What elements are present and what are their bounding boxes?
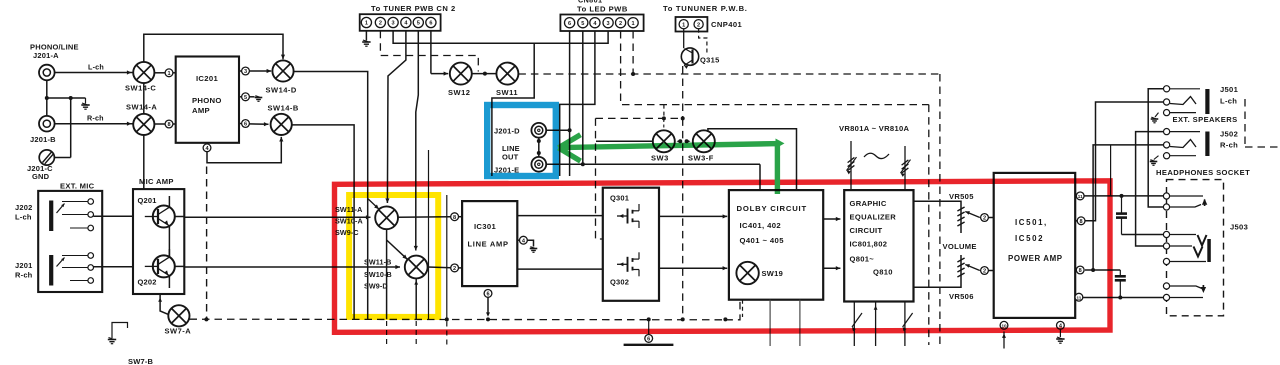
wire SW14-C to pin 1	[154, 72, 165, 74]
svg-text:SW14-C: SW14-C	[125, 84, 156, 93]
svg-text:J502: J502	[1220, 130, 1238, 139]
wire to headphone contact 3	[1122, 234, 1164, 236]
switch SW7-A	[168, 305, 189, 326]
svg-text:DOLBY CIRCUIT: DOLBY CIRCUIT	[737, 204, 807, 213]
contact 3 V spring	[1170, 234, 1196, 236]
pin 4 bottom	[1057, 321, 1065, 329]
switch SW14-D	[272, 60, 293, 81]
svg-text:SW10-B: SW10-B	[364, 270, 392, 279]
pin 5 of CN2	[413, 17, 423, 27]
transistor Q202	[153, 255, 175, 277]
wire J201-C to bus vertical	[70, 98, 72, 158]
wire J201-A down to J201-B	[46, 80, 48, 116]
wire EQ to VR506	[914, 255, 962, 287]
svg-text:SW14-B: SW14-B	[268, 104, 299, 113]
pin 8 of IC301	[451, 213, 459, 221]
dashed wire Q315 emitter down	[682, 66, 684, 118]
wire pin3 to SW14-D	[249, 70, 271, 72]
wire pin6 to SW14-B	[249, 123, 268, 125]
svg-text:AMP: AMP	[192, 106, 210, 115]
dashed wire LED pin2	[621, 31, 929, 105]
svg-text:Q810: Q810	[873, 268, 893, 277]
wire mic amp R output	[175, 265, 185, 267]
wire CN2 pin6 to SW12	[430, 31, 432, 74]
svg-text:6: 6	[568, 21, 571, 27]
wire diagonal into SW1 from phono line	[368, 199, 379, 210]
svg-text:J201-B: J201-B	[30, 135, 56, 144]
wire IC301 out upper	[517, 215, 603, 217]
wire supply into pin10	[1003, 332, 1005, 349]
svg-text:8: 8	[1079, 268, 1082, 274]
svg-text:Q315: Q315	[700, 56, 720, 65]
wiper to pin2 lower	[965, 265, 980, 271]
svg-text:8: 8	[453, 215, 456, 221]
svg-text:PHONO: PHONO	[192, 96, 222, 105]
wire pin8 lower to capacitor	[1085, 269, 1120, 271]
svg-text:MIC AMP: MIC AMP	[139, 177, 174, 186]
svg-text:HEADPHONES SOCKET: HEADPHONES SOCKET	[1156, 168, 1250, 177]
ground phono bus	[85, 98, 87, 104]
svg-text:5: 5	[244, 95, 247, 101]
pin 3 of LED connector	[603, 18, 613, 28]
wire SW1 branch down to bus	[386, 240, 388, 319]
connector LED PWB	[560, 15, 643, 32]
wire SW14-B output right then down	[292, 125, 354, 319]
svg-text:IC401, 402: IC401, 402	[740, 221, 782, 230]
svg-text:3: 3	[244, 69, 247, 75]
svg-text:SW3-F: SW3-F	[688, 154, 714, 163]
wire J201-D to LED pin6 line	[546, 129, 569, 131]
svg-text:1: 1	[167, 71, 170, 77]
transistor Q315	[681, 48, 698, 65]
switch SW11	[496, 63, 518, 85]
op-amp block IC201 PHONO AMP	[176, 57, 239, 143]
wire into SW12	[431, 73, 448, 75]
svg-text:VR506: VR506	[949, 292, 974, 301]
ground pin4	[1059, 329, 1061, 337]
resistor VR506	[957, 258, 964, 262]
svg-text:J503: J503	[1230, 223, 1248, 232]
dashed wire CNP401 pin2 to Q315 base	[699, 29, 707, 54]
pin 6 of LED connector	[565, 18, 575, 28]
switch SW3	[653, 130, 675, 152]
svg-text:8: 8	[1080, 219, 1083, 225]
svg-text:VR505: VR505	[949, 192, 974, 201]
switch SW14-B	[271, 114, 292, 135]
wire dolby to EQ lower	[823, 267, 840, 269]
svg-text:CIRCUIT: CIRCUIT	[850, 226, 883, 235]
switch SW14-A	[133, 114, 154, 135]
wire ground bus horizontal	[47, 97, 86, 99]
svg-text:J201-A: J201-A	[33, 51, 59, 60]
svg-text:R-ch: R-ch	[15, 271, 33, 280]
pin 1 of CN2	[361, 17, 371, 27]
svg-text:Q801~: Q801~	[850, 255, 875, 264]
wire dolby outputs down	[769, 300, 771, 346]
pin 6 of IC301	[484, 290, 492, 298]
dashed link to dolby bottom	[725, 300, 740, 320]
wire CN2 pin3 to LED pin3 bus	[393, 31, 608, 43]
wire J502 tip to headphone contact 4	[1136, 132, 1164, 246]
svg-text:11: 11	[1076, 295, 1081, 300]
wire SW1 down and diagonal to SW2	[386, 229, 388, 240]
svg-text:SW11: SW11	[496, 88, 518, 97]
svg-text:CNP401: CNP401	[711, 20, 742, 29]
wire CNP401 pin1 to Q315	[683, 29, 685, 48]
wire LED pin6 down to J201-D	[569, 31, 571, 176]
dashed stubs below bus	[386, 321, 388, 345]
box EXT MIC jacks	[38, 191, 102, 292]
red annotation box	[335, 181, 1111, 332]
svg-text:VR801A ~ VR810A: VR801A ~ VR810A	[839, 124, 909, 133]
svg-text:J201-D: J201-D	[494, 127, 520, 136]
pin 6 of IC201	[239, 123, 242, 125]
tilde between VRs	[864, 153, 889, 158]
svg-text:IC502: IC502	[1015, 234, 1044, 243]
svg-text:EXT. MIC: EXT. MIC	[60, 182, 95, 191]
green annotation arrow	[559, 135, 778, 194]
jack J201-E	[531, 157, 546, 172]
jack J201-A	[39, 65, 55, 81]
transistor Q301 (FET)	[617, 215, 628, 217]
switch SW3-F	[693, 130, 715, 152]
svg-text:SW14-D: SW14-D	[266, 86, 297, 95]
svg-text:EQUALIZER: EQUALIZER	[850, 213, 897, 222]
dashed bus from SW11 to right	[518, 73, 940, 75]
block DOLBY CIRCUIT	[729, 190, 823, 300]
svg-text:SW19: SW19	[762, 269, 784, 278]
wire CN2 pin5 to SW input	[416, 31, 419, 251]
svg-text:2: 2	[453, 266, 456, 272]
wire SW1 output to IC301 pin8	[398, 216, 451, 219]
pin 3 of IC201	[239, 70, 242, 72]
blue annotation box	[487, 105, 556, 176]
svg-text:IC201: IC201	[196, 74, 218, 83]
contact tip 1	[1170, 195, 1203, 197]
svg-text:OUT: OUT	[502, 153, 519, 162]
pin 2 of CN2	[375, 17, 385, 27]
svg-text:J201: J201	[15, 261, 33, 270]
svg-text:IC501,: IC501,	[1015, 218, 1048, 227]
contact 7	[1170, 297, 1203, 299]
amp block IC301 LINE AMP	[462, 201, 517, 286]
connector CN2	[360, 14, 441, 31]
wire IC301 out lower	[517, 268, 603, 270]
svg-text:L-ch: L-ch	[15, 213, 32, 222]
capacitor C zobel lower	[1119, 270, 1121, 276]
svg-text:R-ch: R-ch	[1220, 141, 1238, 150]
contact 2 with up arrow	[1170, 205, 1201, 208]
headphone contacts	[1163, 193, 1169, 199]
wire SW3-F output to dolby	[708, 129, 797, 190]
dashed wire LED pin1	[632, 31, 634, 74]
contact 5	[1170, 261, 1206, 263]
jack J201-C (gnd)	[39, 150, 54, 165]
wire LED pin5 down to J201-E	[582, 31, 584, 164]
pin 2 of IC301	[451, 264, 459, 272]
wire into SW3	[596, 140, 653, 142]
pin 10 bottom	[1000, 321, 1008, 329]
dashed frame right	[1244, 99, 1246, 147]
switch SW11-A group	[375, 206, 398, 229]
wire EQ to VR505	[914, 201, 962, 233]
svg-text:POWER AMP: POWER AMP	[1008, 254, 1063, 263]
svg-text:SW9-D: SW9-D	[364, 282, 388, 291]
wire Q block to dolby upper	[659, 215, 727, 217]
svg-text:GRAPHIC: GRAPHIC	[850, 199, 887, 208]
wire mic amp bottom to SW7-A	[160, 294, 169, 315]
svg-text:SW7-B: SW7-B	[128, 357, 154, 365]
svg-text:J501: J501	[1220, 85, 1239, 94]
svg-text:Q401 ~ 405: Q401 ~ 405	[740, 236, 785, 245]
wire tap down to line out region	[492, 43, 534, 176]
wire SW14-A down to MIC AMP box	[143, 135, 145, 189]
wire mic L to amp	[94, 215, 134, 217]
pin 8 of IC501	[1075, 220, 1077, 222]
wire feed down right of switches	[446, 195, 448, 320]
svg-text:GND: GND	[32, 172, 50, 181]
variable resistor VR810A	[904, 146, 906, 190]
wiper to pin2	[965, 212, 980, 218]
dashed wire CN2 pin2	[380, 31, 478, 72]
block IC501 IC502 POWER AMP	[994, 173, 1075, 318]
svg-text:8: 8	[167, 122, 170, 128]
wire mic R to amp	[94, 266, 134, 268]
contact 6 with down arrow	[1170, 286, 1202, 289]
svg-text:11: 11	[1078, 194, 1083, 199]
dashed dolby bottom control	[742, 300, 744, 317]
wire SW2 down	[415, 278, 417, 319]
junction between SW3 pair	[678, 139, 682, 143]
ground J502	[1154, 156, 1159, 160]
ground J501	[1155, 113, 1159, 117]
ground pin5	[249, 96, 254, 98]
pin 5 of IC201	[239, 96, 242, 98]
svg-text:5: 5	[417, 21, 420, 27]
svg-text:1: 1	[632, 21, 635, 27]
svg-text:L-ch: L-ch	[88, 63, 104, 72]
dashed control bus bottom	[190, 318, 726, 321]
jack J201-D	[531, 123, 546, 138]
svg-text:1: 1	[682, 22, 685, 28]
yellow annotation box	[349, 195, 438, 317]
wire J501 tip down to headphone contact 2	[1148, 89, 1163, 207]
capacitor C zobel upper	[1121, 196, 1123, 213]
svg-text:SW12: SW12	[448, 88, 470, 97]
pin 4 of CN2	[401, 17, 411, 27]
pin 1 of LED connector	[628, 18, 638, 28]
svg-text:SW7-A: SW7-A	[165, 327, 192, 336]
svg-text:Q302: Q302	[610, 278, 629, 287]
branch down at 1110	[1110, 145, 1112, 196]
resistor VR505	[957, 207, 964, 211]
ground CN2 pin1	[365, 31, 367, 41]
switch SW19	[736, 262, 758, 284]
jack J201 contacts	[49, 255, 53, 286]
pin 5 of LED connector	[578, 18, 588, 28]
pin 4 of LED connector	[590, 18, 600, 28]
svg-text:2: 2	[983, 216, 986, 222]
wire pin4 loop to SW14-B bottom	[207, 137, 281, 163]
svg-text:L-ch: L-ch	[1220, 97, 1237, 106]
connector CNP401	[676, 17, 708, 32]
switch SW11-B group	[405, 256, 428, 279]
dashed control from pin4 down	[206, 167, 208, 319]
jack J501	[1164, 86, 1170, 92]
pin 2 of LED connector	[616, 18, 626, 28]
wire CN2 pin4 to SW input	[387, 31, 406, 203]
wire dolby to EQ upper	[823, 218, 840, 220]
dashed box headphone socket J503	[1167, 180, 1224, 316]
wire feed inside yellow box	[428, 150, 430, 319]
wire J502 spring down to pin8 lower	[1093, 145, 1163, 270]
svg-text:LINE AMP: LINE AMP	[468, 240, 509, 249]
pin 8 of IC502	[1075, 269, 1076, 271]
pin 6 stub below bus	[648, 319, 650, 334]
svg-text:6: 6	[244, 122, 247, 128]
jack J202 contacts	[49, 201, 53, 232]
pin 11 of IC502	[1074, 296, 1076, 298]
box Q301 Q302	[603, 188, 659, 301]
svg-text:To TUNUNER P.W.B.: To TUNUNER P.W.B.	[663, 4, 748, 13]
wire SW2 output to IC301 pin2	[428, 266, 451, 269]
svg-text:Q301: Q301	[610, 194, 629, 203]
pin 3 of CN2	[388, 17, 398, 27]
wire SW14-D output right then down	[294, 72, 368, 320]
wire pin6 down to control bus	[487, 297, 489, 314]
pin 4 of IC201	[203, 144, 211, 152]
block GRAPHIC EQUALIZER	[844, 190, 913, 301]
wire mic amp L output	[175, 216, 185, 218]
switch SW12	[450, 63, 472, 85]
transistor Q302 (FET)	[617, 263, 628, 265]
wire pin11 to headphone tip	[1084, 195, 1163, 197]
wire J201-C lead	[54, 157, 70, 159]
jack J201-B	[39, 116, 55, 132]
svg-text:2: 2	[697, 22, 700, 28]
svg-text:6: 6	[647, 337, 650, 343]
wire SW12 to SW11	[472, 73, 497, 75]
contact 4 V spring	[1170, 245, 1192, 247]
wire between SW14-C and SW14-A	[143, 83, 145, 114]
sleeve bar	[1207, 239, 1211, 262]
pin 1 of IC201	[165, 69, 173, 77]
svg-text:SW3: SW3	[651, 154, 669, 163]
svg-text:5: 5	[581, 21, 584, 27]
wire Q block to dolby lower	[659, 267, 727, 269]
dashed bus down at VR block	[928, 105, 930, 345]
svg-text:EXT. SPEAKERS: EXT. SPEAKERS	[1173, 115, 1238, 124]
junction on phono ground bus	[45, 96, 49, 100]
svg-text:2: 2	[379, 21, 382, 27]
jack J502	[1164, 129, 1170, 135]
svg-text:R-ch: R-ch	[87, 114, 104, 123]
wire R-ch from J201-B to SW14-A	[55, 123, 133, 125]
ground stub lower left	[112, 323, 128, 339]
wire pin8 up to J501 spring	[1085, 102, 1163, 221]
svg-text:VOLUME: VOLUME	[943, 242, 977, 251]
dashed box around SW3	[596, 117, 683, 119]
svg-text:6: 6	[429, 21, 432, 27]
svg-text:To TUNER PWB CN 2: To TUNER PWB CN 2	[371, 4, 456, 13]
wire between jacks	[538, 138, 540, 157]
svg-text:1: 1	[365, 21, 368, 27]
switch SW14-C	[133, 62, 154, 83]
variable resistor VR801A	[850, 141, 852, 190]
wire SW3 stub up	[663, 119, 665, 131]
svg-text:Q202: Q202	[138, 278, 157, 287]
svg-text:SW14-A: SW14-A	[126, 103, 157, 112]
svg-text:IC801,802: IC801,802	[850, 240, 888, 249]
svg-text:2: 2	[619, 21, 622, 27]
svg-text:6: 6	[486, 292, 489, 298]
pin 2 of IC501 upper	[981, 214, 989, 222]
pin 4 of IC301	[517, 239, 520, 241]
pin 2 of IC501 lower	[981, 267, 989, 275]
pin 6 of CN2	[426, 17, 436, 27]
svg-text:J202: J202	[15, 203, 33, 212]
svg-text:To LED PWB: To LED PWB	[577, 5, 628, 14]
svg-text:2: 2	[983, 269, 986, 275]
svg-text:3: 3	[607, 21, 610, 27]
transistor Q201	[153, 206, 175, 228]
wire LED pin4 down/left	[560, 31, 595, 176]
pin 11 of IC501	[1075, 195, 1076, 197]
svg-text:Q201: Q201	[138, 196, 157, 205]
box MIC AMP	[133, 189, 184, 294]
wire J201-E feed to dolby	[546, 163, 760, 165]
svg-text:3: 3	[392, 21, 395, 27]
dashed control down to bottom bus	[682, 118, 684, 321]
wire bypass SW14-C top to SW14-D top	[144, 34, 283, 62]
dashed bus down right side	[939, 74, 941, 345]
wire L-ch from J201-A to SW14-C	[55, 72, 133, 74]
svg-text:IC301: IC301	[474, 222, 496, 231]
wire pin11 lower to headphone bottom	[1083, 297, 1164, 299]
pin 8 of IC201	[154, 123, 165, 125]
wires below EQ box	[853, 302, 855, 347]
